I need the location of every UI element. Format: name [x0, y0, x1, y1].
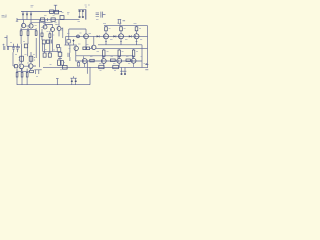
wire ground rail — [17, 67, 90, 84]
wire h487 — [96, 48, 148, 50]
transistor Q3 — [43, 20, 47, 29]
wire left spine — [13, 52, 15, 66]
cap C6 marks — [68, 53, 69, 57]
speaker clip B — [120, 68, 126, 75]
wire v70 — [69, 45, 71, 62]
diode D3 — [30, 12, 32, 20]
wire right edge — [147, 26, 149, 68]
transistor Q6 driver — [84, 29, 89, 49]
transistor Q8 predriver2 — [90, 36, 96, 49]
wire q7 emitter — [75, 51, 77, 62]
fuse F4 — [113, 65, 119, 68]
speaker clip A — [70, 76, 76, 85]
wire spine mid — [39, 20, 41, 68]
resistor R7 — [42, 40, 45, 44]
capacitor C3 — [16, 44, 19, 52]
transistor Q4 — [45, 25, 55, 32]
transistor Q9 out — [104, 34, 109, 39]
label marks left — [2, 15, 7, 46]
resistor R24 — [60, 16, 64, 20]
terminal +V stub — [54, 5, 57, 11]
wire VAS — [52, 32, 54, 52]
resistor R5 — [41, 29, 43, 40]
diode D4 — [72, 39, 74, 45]
wire mid h — [43, 50, 62, 52]
emitter stubs top row — [106, 39, 137, 45]
capacitor C12 — [96, 12, 106, 18]
RC cluster A — [19, 56, 24, 61]
wire q17 down — [30, 68, 32, 70]
wire h698 — [34, 70, 41, 74]
transistor Q12 out — [82, 59, 87, 64]
resistor R35 — [77, 61, 79, 66]
wire base bus bottom row — [76, 55, 134, 57]
wire v65 — [65, 36, 67, 45]
wire tail C4 — [21, 44, 23, 63]
resistor R18 — [135, 26, 138, 34]
cap C5 marks — [50, 40, 51, 44]
wire top out rail — [104, 25, 148, 27]
fuse F2 — [63, 66, 68, 70]
wire h713 — [16, 70, 29, 72]
transistor Q13 out — [101, 59, 106, 64]
trimmer VR1 — [77, 35, 80, 38]
diode DB — [113, 35, 116, 37]
resistor R36 — [67, 36, 70, 45]
transistor Q17 — [28, 64, 33, 69]
resistor R3 — [35, 28, 37, 35]
box R31 — [15, 65, 18, 68]
ground tick left — [16, 18, 18, 21]
capacitor C10 electrolytic — [79, 10, 81, 17]
wire top rail V+ upper — [21, 11, 62, 13]
resistor R17 — [120, 26, 123, 34]
wire y45 — [64, 44, 76, 46]
resistor R10 — [48, 43, 51, 57]
wire input — [7, 45, 19, 47]
resistor R6 — [49, 31, 51, 40]
wire h36 bus — [66, 35, 148, 37]
transistor Q7 predriver — [74, 45, 78, 51]
wire pair link — [26, 25, 29, 27]
wire v142 — [141, 45, 143, 68]
diode D1 — [22, 12, 24, 20]
wire lower top rail — [17, 19, 80, 21]
diode DA — [97, 35, 100, 37]
transistor Q5 — [57, 20, 61, 31]
resistor R29 — [110, 59, 115, 62]
resistor R34 — [26, 69, 28, 85]
wire link q16 q17 — [24, 65, 36, 67]
resistor R32 — [16, 69, 18, 85]
resistor R13 cluster — [58, 60, 64, 65]
fuse F1 — [118, 19, 126, 25]
wire q5 c — [61, 28, 63, 39]
transistor Q16 — [19, 64, 24, 69]
bracket bar — [85, 9, 87, 19]
wire R2 down — [27, 35, 29, 56]
resistor R21 — [55, 10, 59, 14]
transistor Q14 out — [117, 58, 122, 63]
transistor Q11 out — [134, 34, 139, 39]
fuse F3 — [99, 65, 104, 68]
resistor R26 — [118, 49, 120, 59]
node tick — [47, 18, 49, 21]
box small — [30, 70, 34, 72]
capacitor C2 — [12, 44, 15, 52]
base curls bottom row — [84, 56, 133, 59]
stub x57 — [56, 79, 59, 85]
resistor R25 — [103, 49, 105, 59]
resistor R1 — [20, 28, 22, 36]
transistor Q10 out — [119, 34, 124, 39]
wire out bus — [98, 44, 142, 46]
wire q5 e — [58, 31, 60, 37]
output post right — [145, 63, 148, 70]
RC cluster B — [29, 56, 35, 61]
wire v57 — [57, 47, 61, 52]
wire base link — [20, 29, 36, 31]
wire cap bank top — [78, 9, 86, 11]
transistor Q15 out — [131, 58, 136, 63]
stub x87 — [86, 61, 88, 74]
wire collector rail — [31, 22, 53, 24]
wire h29 — [69, 28, 86, 30]
wire spine 2 — [35, 38, 37, 58]
resistor R14 — [83, 47, 86, 50]
resistor R30 — [126, 59, 130, 62]
wire v68 — [68, 29, 70, 36]
resistor R8 — [46, 40, 49, 43]
capacitor C11 electrolytic — [82, 10, 84, 17]
resistor R22 on rail — [41, 18, 45, 21]
transistor Q1 — [22, 20, 26, 28]
resistor R2 — [27, 28, 29, 36]
transistor Q2 — [29, 20, 33, 28]
resistor R27 — [132, 49, 134, 59]
box R12 — [57, 45, 60, 48]
resistor R15 — [87, 47, 90, 50]
resistor R33 — [21, 69, 23, 85]
emitter drops bottom row — [85, 63, 134, 67]
transistor internals — [20, 25, 135, 68]
resistor R4 — [24, 44, 27, 48]
resistor R28 — [90, 59, 94, 62]
wire R1 down — [20, 35, 22, 44]
diode D2 — [26, 12, 28, 20]
resistor R9 — [43, 44, 47, 57]
wire neg rail — [43, 66, 148, 68]
wire tail 2 — [30, 52, 32, 63]
capacitor C1 input marks — [4, 46, 9, 50]
emitter marks — [105, 41, 138, 43]
background — [0, 0, 150, 90]
wire low bus — [75, 60, 142, 62]
resistor R20 — [50, 10, 54, 13]
wire input pair tails — [18, 46, 20, 48]
diode DC — [129, 35, 132, 37]
label speckles — [10, 5, 146, 77]
wire q16 down — [20, 69, 22, 72]
resistor R11 — [58, 52, 62, 59]
input terminal J1 — [4, 35, 7, 46]
resistor R23 on rail — [51, 18, 55, 21]
resistor R16 — [105, 26, 108, 34]
